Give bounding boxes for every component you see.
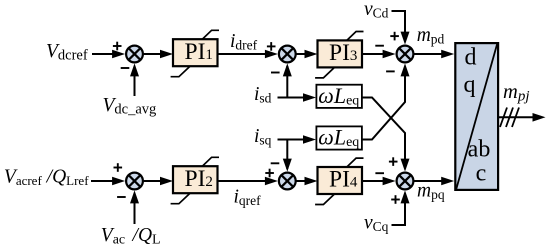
gain block wLeq1 bbox=[316, 83, 362, 109]
summing junction S5 bbox=[279, 173, 296, 190]
slash marks on mpj wire bbox=[500, 108, 519, 128]
wire Vacref to summing junction S6 bbox=[91, 177, 125, 186]
label isq bbox=[254, 126, 272, 148]
PI controller PI2 bbox=[171, 157, 219, 203]
summing junction S6 bbox=[126, 173, 143, 190]
wire PI3 to summing junction S3 bbox=[362, 50, 396, 59]
summing junction S3 bbox=[397, 46, 414, 63]
wire isd to wLeq1 bbox=[278, 93, 317, 102]
minus sign at S4 left bbox=[375, 172, 384, 174]
svg-text:c: c bbox=[476, 161, 487, 187]
gain block wLeq2 bbox=[316, 125, 362, 151]
minus sign at S2 bbox=[271, 72, 280, 74]
wire PI4 to summing junction S4 bbox=[362, 177, 396, 186]
PI controller PI4 bbox=[315, 158, 363, 204]
minus sign at S5 top bbox=[271, 162, 280, 164]
transform block dq to abc bbox=[455, 43, 498, 190]
plus sign at S6 bbox=[114, 163, 123, 172]
label Vac/QL bbox=[101, 225, 161, 248]
wire isq to wLeq2 bbox=[278, 135, 317, 144]
minus sign at S3 left bbox=[375, 45, 384, 47]
wire S3 to dq-abc block bbox=[413, 50, 454, 59]
wire S2 to PI3 bbox=[296, 50, 318, 59]
wire isd branch up into S2 bbox=[283, 63, 292, 97]
PI controller PI1 bbox=[171, 30, 219, 76]
wire Vdc_avg up into S1 bbox=[130, 63, 139, 96]
wire vCd down into S3 bbox=[392, 11, 410, 45]
minus sign at S6 bbox=[117, 196, 126, 198]
wire Vac/QL up into S6 bbox=[130, 190, 139, 224]
summing junction S2 bbox=[279, 46, 296, 63]
plus sign at S4 top bbox=[389, 157, 398, 166]
wire S5 to PI4 bbox=[296, 177, 318, 186]
minus sign at S1 bbox=[121, 67, 130, 69]
wire mpj output with arrow bbox=[498, 113, 546, 122]
label Vdc_avg bbox=[103, 95, 157, 118]
label mpd bbox=[417, 25, 445, 47]
label Vdcref bbox=[46, 41, 88, 64]
wire PI2 to summing junction S5 bbox=[218, 177, 278, 186]
label Vacref/QLref bbox=[4, 167, 89, 189]
wire wLeq2 cross up to S3 bbox=[362, 63, 410, 139]
summing junction S4 bbox=[397, 173, 414, 190]
wire Vdcref to summing junction S1 bbox=[92, 50, 125, 59]
minus sign at S3 bottom bbox=[386, 70, 395, 72]
wire wLeq1 cross down to S4 bbox=[362, 98, 410, 172]
PI controller PI3 bbox=[315, 32, 363, 78]
summing junction S1 bbox=[126, 46, 143, 63]
wire S1 to PI1 bbox=[143, 50, 173, 59]
label vCd bbox=[364, 0, 389, 21]
svg-text:d: d bbox=[465, 45, 477, 71]
wire PI1 to summing junction S2 bbox=[218, 50, 278, 59]
wire isq branch down into S5 bbox=[283, 140, 292, 172]
wire vCq up into S4 bbox=[392, 190, 410, 225]
label idref bbox=[230, 31, 258, 53]
plus sign at S1 bbox=[113, 42, 122, 51]
svg-text:Vac /QL: Vac /QL bbox=[101, 225, 161, 248]
wire S6 to PI2 bbox=[143, 177, 173, 186]
wire S4 to dq-abc block bbox=[413, 177, 454, 186]
label isd bbox=[254, 84, 272, 106]
label mpq bbox=[417, 181, 445, 203]
plus sign at S5 bbox=[265, 169, 274, 178]
label vCq bbox=[364, 213, 389, 235]
label mpj bbox=[503, 81, 529, 105]
plus sign at S4 bottom bbox=[391, 195, 400, 204]
svg-text:ab: ab bbox=[468, 136, 491, 162]
label iqref bbox=[234, 186, 262, 208]
plus sign at S3 top bbox=[390, 32, 399, 41]
plus sign at S2 bbox=[267, 42, 276, 51]
svg-text:q: q bbox=[464, 72, 476, 98]
